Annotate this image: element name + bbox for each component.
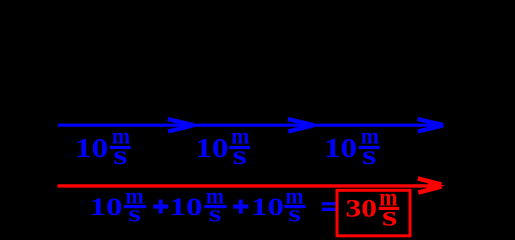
vector v2 shaft (second 10 m/s segment) bbox=[192, 124, 313, 127]
arrowhead tip fill of resultant vector bbox=[428, 182, 445, 190]
svg-text:10: 10 bbox=[195, 133, 228, 164]
equals sign top bar bbox=[322, 202, 336, 205]
svg-text:10: 10 bbox=[251, 193, 284, 221]
label v1 fraction bar bbox=[110, 146, 131, 149]
svg-text:10: 10 bbox=[75, 133, 108, 164]
arrowhead of vector v1 (lower stroke) bbox=[168, 126, 193, 132]
arrowhead of resultant vector (upper stroke) bbox=[418, 178, 442, 184]
arrowhead of vector v3 (lower stroke) bbox=[418, 126, 443, 132]
svg-text:s: s bbox=[362, 139, 376, 170]
plus sign 2 vertical bar bbox=[239, 200, 243, 214]
label v3 fraction bar bbox=[359, 146, 380, 149]
resultant vector shaft (red) bbox=[58, 184, 429, 187]
svg-text:10: 10 bbox=[324, 133, 357, 164]
arrowhead of resultant vector (lower stroke) bbox=[418, 187, 441, 193]
svg-text:s: s bbox=[288, 200, 301, 227]
result fraction bar bbox=[379, 207, 399, 210]
svg-text:s: s bbox=[113, 139, 127, 170]
svg-text:s: s bbox=[209, 200, 222, 227]
svg-text:s: s bbox=[128, 200, 141, 227]
svg-text:s: s bbox=[382, 200, 397, 233]
label v2 fraction bar bbox=[229, 146, 250, 149]
vector v3 shaft (third 10 m/s segment) bbox=[313, 124, 440, 127]
svg-text:30: 30 bbox=[346, 194, 378, 222]
svg-text:s: s bbox=[233, 139, 247, 170]
vector v1 shaft (first 10 m/s segment) bbox=[58, 124, 192, 127]
arrowhead of vector v3 (upper stroke) bbox=[418, 119, 444, 125]
equation term 3 fraction bar bbox=[284, 205, 305, 208]
svg-text:10: 10 bbox=[169, 193, 202, 221]
plus sign 1 horizontal bar bbox=[153, 205, 168, 209]
result box (red rectangle) bbox=[337, 190, 410, 236]
plus sign 1 vertical bar bbox=[159, 200, 163, 214]
arrowhead of vector v1 (upper stroke) bbox=[168, 119, 193, 125]
equation term 2 fraction bar bbox=[204, 205, 226, 208]
svg-text:10: 10 bbox=[90, 193, 123, 221]
arrowhead of vector v2 (upper stroke) bbox=[288, 119, 313, 125]
equals sign bottom bar bbox=[322, 208, 336, 211]
equation term 1 fraction bar bbox=[124, 205, 146, 208]
plus sign 2 horizontal bar bbox=[233, 205, 248, 209]
arrowhead of vector v2 (lower stroke) bbox=[288, 126, 313, 132]
